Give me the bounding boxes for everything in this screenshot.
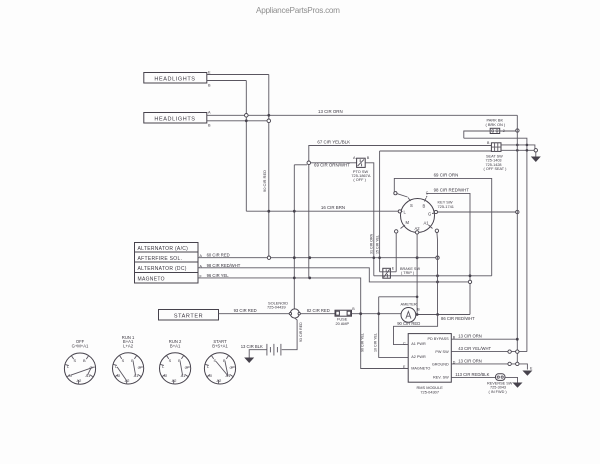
svg-text:725-04307: 725-04307 [420,390,439,395]
wire rail x378.7 down to A2 PWR pin [379,297,409,358]
svg-text:GROUND: GROUND [432,362,449,366]
park brake switch SW2 [490,128,500,133]
svg-text:725-04439: 725-04439 [267,305,286,310]
key terminal M ring [395,230,398,233]
wire headlight1 top pin to rail x269 [207,74,269,76]
svg-text:M: M [406,220,410,225]
svg-text:31 CIR ORN: 31 CIR ORN [370,233,374,254]
svg-text:B: B [423,204,426,209]
node ring pw sw connector [508,350,511,353]
wire 98 CIR RED/WHT from alternator DC jog to ring at rail470 [198,268,468,282]
node dot rail2 x w60 [378,256,381,259]
svg-text:B+A1: B+A1 [170,344,181,349]
svg-text:MAGNETO: MAGNETO [411,367,430,371]
svg-text:L+A2: L+A2 [123,344,134,349]
ground seat [531,157,541,163]
wire key M rail down [395,233,397,272]
node dot railA x seat top wire [516,144,519,147]
key terminal A1 ring [435,229,438,232]
svg-text:( IN FWD ): ( IN FWD ) [489,390,508,394]
node ring park at rail A [516,129,519,132]
wire 69 net horizontal y275.8 through brake box to corner up rail x491.7 [374,275,492,277]
svg-text:96 CIR YEL: 96 CIR YEL [207,273,230,278]
svg-text:90 CIR RED: 90 CIR RED [262,170,267,192]
svg-text:15 CIR YEL: 15 CIR YEL [375,235,379,254]
node ring on V2 at 69 wire [307,161,311,165]
node dot V1 x 16CIRBRN [293,210,296,213]
ground RMS [522,371,532,376]
key pin A1 [424,221,433,229]
node dot rail A x PD bypass [516,338,519,341]
node dot w98 x A1 rail [436,281,439,284]
node dot V2 x w60 [308,256,311,259]
node dot rail1 x w60 [373,256,376,259]
svg-text:ALTERNATOR (DC): ALTERNATOR (DC) [138,266,187,272]
key terminal B lead [425,196,428,198]
key position circle 4 START [204,339,235,384]
svg-text:S: S [410,203,413,208]
svg-text:A2 PWR: A2 PWR [411,355,426,359]
wire drop to seat ground [535,152,537,157]
node dot rail360 x fuse wire [359,312,362,315]
svg-text:A1: A1 [424,221,430,226]
svg-text:STARTER: STARTER [174,314,203,320]
wire 67 CIR YEL/BLK seat top: corner at x308.8 down, right to seat connector [309,146,492,174]
svg-text:A1: A1 [134,373,139,378]
svg-text:60 CIR RED: 60 CIR RED [207,253,230,258]
key pin G [428,212,434,217]
wire key A2 rail down [416,234,418,314]
wire RMS PD BYPASS to rail A [451,338,517,340]
key terminal A2 ring [415,231,418,234]
node ring seat ground junction [534,149,537,152]
node ring ground connector [508,362,511,365]
key terminal S ring and lead [394,192,408,197]
key pin M [401,220,410,229]
node dot V1 x w60 [293,256,296,259]
key position circle 1 OFF [64,339,95,384]
wire starter to solenoid [219,313,290,315]
headlight box H2 [144,113,207,124]
node ring rail246 x wire13orn [245,114,249,118]
afterfire sol box [135,252,199,262]
wire RMS PW SW to rail C [451,351,527,353]
node ring rail269 x headlight2 bottom [267,119,271,123]
battery BT1 [267,344,281,356]
wire 98 CIR RED/WHT from B terminal right, down rail x470 [427,193,470,314]
svg-text:B+S+A1: B+S+A1 [212,344,228,349]
key switch U1 circle [401,199,435,233]
node ring G wire at rail A [516,210,519,213]
key terminal G ring [434,210,437,213]
wire 60 CIR RED [198,257,436,259]
svg-text:MAGNETO: MAGNETO [138,276,165,282]
wire brake E tie y271.8 from rail2 to M rail [380,271,397,273]
seat switch connector J1 [491,143,501,152]
svg-text:( BRK ON ): ( BRK ON ) [486,122,506,127]
node ring w60 end at A1 rail [436,256,439,259]
node ring headlight rail end on w60 [267,256,270,259]
wire rail A vertical 13 CIR ORN [516,115,518,364]
node dot rail470 x w69 [469,274,472,277]
svg-text:98 CIR RED/WHT: 98 CIR RED/WHT [207,263,241,268]
key pin B [423,198,427,209]
svg-text:( OFF ): ( OFF ) [353,177,366,182]
svg-text:G+M+A1: G+M+A1 [72,344,89,349]
node dot A2 rail end on ammeter wire [416,313,419,316]
svg-text:( TRIP ): ( TRIP ) [401,271,415,275]
node dot V1 x w96 [293,277,296,280]
wire A2 spur y296.8 to rail x378.7 [379,296,417,298]
wire RMS GROUND to ground [451,364,527,370]
wire rail x269 vertical [268,75,270,258]
wire 96 CIR YEL from magneto corner down rail x360.7 to RMS magneto pin [198,278,408,369]
alternator (A/C) box [135,243,199,253]
key position circle 2 RUN 1 [113,335,144,384]
wire 69 CIR ORN/WHT to PTO switch A [309,162,357,164]
reverse switch SW4 [496,374,506,381]
svg-text:90 CIR RED: 90 CIR RED [397,321,420,326]
magneto box [135,273,199,284]
svg-text:43 CIR YEL/WHT: 43 CIR YEL/WHT [458,346,491,351]
PTO switch SW1 box [357,158,366,167]
svg-text:13 CIR ORN: 13 CIR ORN [458,334,482,339]
wire rail2 vertical down to brake tie [379,151,381,272]
svg-text:93 CIR RED: 93 CIR RED [234,308,257,313]
node dot railA x seat bottom wire [516,149,519,152]
wire headlight2 bottom pin [207,120,269,122]
key pin L [401,210,407,215]
svg-text:725-1741: 725-1741 [438,204,454,209]
node ring ground at rail A [516,362,519,365]
node ring pw sw at rail A [516,350,519,353]
svg-text:10 CIR YEL: 10 CIR YEL [373,333,377,352]
wire Z route to RMS A1 PWR [394,315,438,345]
svg-text:93 CIR RED: 93 CIR RED [299,322,303,342]
svg-text:AMETER: AMETER [401,302,417,307]
wire y138.2 to rail C corner [464,138,527,351]
node dot rail269 x 16CIRBRN [267,210,270,213]
alternator (DC) box [135,262,199,273]
node dot A2rail x w60 [416,256,419,259]
solenoid circle [289,309,300,318]
wire 13 CIR ORN from headlight2 top pin to right rail A [207,114,518,116]
wire headlight1 bottom pin to rail x246 [207,80,247,82]
key pin A2 [415,226,421,232]
wire seat bottom feed from rail2 corner to seat connector [380,150,492,152]
svg-text:C: C [403,342,406,346]
svg-text:AFTERFIRE SOL.: AFTERFIRE SOL. [138,256,183,262]
svg-text:20 AMP: 20 AMP [336,321,350,326]
node dot rail246 x headlight2 bottom [245,119,248,122]
svg-text:( OFF SEAT ): ( OFF SEAT ) [484,167,508,171]
wire park right to rail A ring [500,130,516,132]
ground battery [244,358,254,364]
ground reverse [513,383,523,388]
node dot railC x seat bottom wire [526,149,529,152]
node dot Z drop on ammeter wire [436,313,439,316]
svg-text:A2: A2 [415,226,421,231]
wire seat right bottom pin to ground ring [501,149,534,151]
node dot railC x seat top wire [526,144,529,147]
wire key A1 rail down [436,233,439,315]
svg-text:B: B [367,156,370,160]
svg-text:13 CIR ORN: 13 CIR ORN [458,358,482,363]
wire 16 CIR BRN from rail246 corner to key L [246,210,398,212]
svg-text:REV. SW: REV. SW [433,375,449,379]
wire ammeter right to rail470 corner [416,314,470,316]
node dot rail378 x fuse wire [377,312,380,315]
svg-text:113 CIR RED/BLK: 113 CIR RED/BLK [455,372,489,377]
node dot A2 rail y296.8 [416,296,419,299]
wire solenoid bottom down to battery [282,318,297,350]
node dot A1rail x w69 [436,274,439,277]
wire rail x246 vertical [245,81,247,212]
brake switch SW3 box [383,268,391,278]
key position circle 3 RUN 2 [160,339,191,384]
key terminal L ring [398,210,401,213]
headlight box H1 [144,73,207,84]
svg-text:67 CIR YEL/BLK: 67 CIR YEL/BLK [317,140,350,145]
svg-text:16 CIR BRN: 16 CIR BRN [321,205,345,210]
wire key G to rail A with end ring [438,211,516,213]
svg-text:PW SW: PW SW [435,350,449,354]
wire solenoid to fuse [300,313,335,315]
svg-text:AppliancePartsPros.com: AppliancePartsPros.com [256,6,340,15]
svg-text:G: G [428,212,431,217]
wire V1 rail down to solenoid top [293,165,295,309]
svg-text:HEADLIGHTS: HEADLIGHTS [154,117,195,123]
RMS module box [408,334,451,383]
wire battery left to ground [249,350,267,358]
svg-text:86 CIR RED/WHT: 86 CIR RED/WHT [441,316,475,321]
fuse F1 [335,310,352,316]
wire PTO B down rail1 [365,163,374,276]
svg-text:13 CIR BLK: 13 CIR BLK [241,344,263,349]
ammeter M1 [401,308,416,323]
svg-text:B: B [83,358,86,363]
svg-text:ALTERNATOR (A/C): ALTERNATOR (A/C) [138,246,189,252]
node ring w98 end at rail470 [468,280,471,283]
wire fuse to ammeter [352,313,402,315]
node dot V2 end on w96 [308,277,311,280]
starter box [159,310,219,321]
wire park left lead and drop at x463.8 [464,131,490,138]
svg-text:A1 PWR: A1 PWR [411,342,426,346]
wire 69 CIR ORN from S terminal up and right, down rail x491.7 [394,178,491,275]
wire reverse switch to ground [505,377,518,382]
svg-text:13 CIR ORN: 13 CIR ORN [318,109,343,114]
node dot rail269 x wire13orn [267,114,270,117]
wire seat right top pin to jog down [501,145,535,150]
wire RMS REV SW to reverse switch [451,376,495,378]
wire V2 rail down [308,174,310,278]
svg-text:HEADLIGHTS: HEADLIGHTS [154,77,195,83]
key pin S [408,198,413,209]
svg-text:A1: A1 [181,373,186,378]
wire stub to V1 rail [294,164,307,166]
svg-text:98 CIR RED/WHT: 98 CIR RED/WHT [434,188,470,193]
svg-text:82 CIR RED: 82 CIR RED [307,308,330,313]
svg-text:PD BYPASS: PD BYPASS [427,337,449,341]
svg-text:69 CIR ORN: 69 CIR ORN [434,173,459,178]
svg-text:96 CIR YEL: 96 CIR YEL [360,333,364,352]
